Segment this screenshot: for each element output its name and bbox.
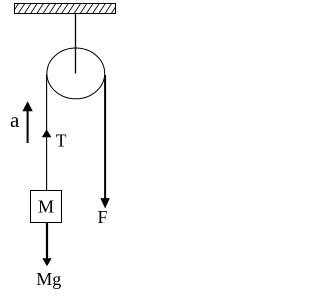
left rope [46,74,48,191]
ceiling hatch lines [12,3,119,14]
pulley support rod [75,13,77,74]
ceiling bar [15,4,116,14]
pulley wheel [47,48,105,99]
svg-text:F: F [98,207,108,227]
weight arrow Mg [46,223,48,260]
tension arrowhead T [42,129,52,137]
svg-text:Mg: Mg [36,269,61,289]
mass box M [31,191,62,223]
acceleration arrow a [27,109,29,143]
svg-text:a: a [10,108,20,132]
svg-text:T: T [56,131,67,151]
svg-text:M: M [38,197,54,217]
right rope / force arrow F [104,75,106,199]
